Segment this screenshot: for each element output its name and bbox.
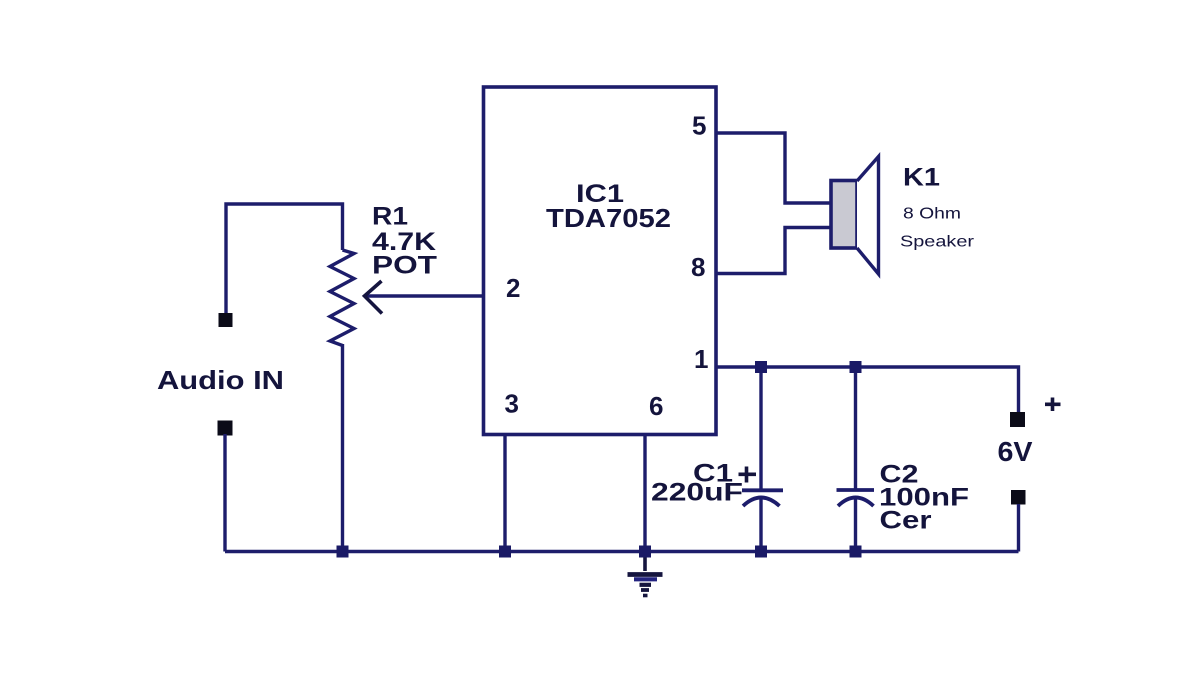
resistor R1 zigzag: [330, 250, 354, 346]
svg-text:3: 3: [505, 389, 519, 419]
svg-text:6: 6: [649, 391, 663, 421]
svg-text:1: 1: [694, 344, 708, 374]
wire audio lower terminal to ground rail: [223, 434, 226, 552]
svg-text:TDA7052: TDA7052: [546, 203, 671, 233]
wire pin8 to speaker: [716, 228, 830, 274]
battery positive terminal: [1010, 412, 1025, 427]
capacitor C2 bottom wire: [854, 500, 857, 552]
capacitor C2 top wire: [854, 367, 857, 489]
IC IC1 TDA7052 box: [484, 87, 717, 435]
svg-text:Speaker: Speaker: [900, 234, 975, 251]
battery negative terminal: [1011, 490, 1026, 505]
capacitor C1 top plate: [742, 488, 783, 492]
ground symbol: [628, 552, 663, 596]
wire pin3 down: [503, 434, 506, 552]
wire battery negative to ground rail: [1017, 504, 1020, 552]
junction dot pin3/ground rail: [499, 546, 511, 558]
svg-text:Cer: Cer: [880, 507, 932, 535]
wire pin1 to battery positive: [716, 367, 1019, 412]
battery plus sign: [1045, 398, 1061, 412]
capacitor C1 top wire: [759, 367, 762, 489]
capacitor C1 bottom wire: [759, 500, 762, 552]
speaker K1 cone: [857, 157, 879, 275]
wire audio upper terminal to pot top: [226, 204, 343, 313]
svg-text:Audio IN: Audio IN: [157, 365, 284, 395]
junction dot C2/ground rail: [850, 546, 862, 558]
svg-text:2: 2: [506, 273, 520, 303]
capacitor C2 top plate: [837, 488, 875, 492]
svg-text:6V: 6V: [998, 436, 1033, 467]
svg-text:5: 5: [692, 111, 706, 141]
svg-text:8: 8: [691, 252, 705, 282]
wiper arrow head: [365, 281, 383, 314]
junction dot pin6/ground rail: [639, 546, 651, 558]
svg-text:POT: POT: [372, 252, 437, 280]
wire pin6 down: [643, 434, 646, 552]
wire pin2 to potentiometer wiper: [367, 294, 484, 297]
capacitor C1 curved plate: [743, 498, 780, 507]
svg-text:220uF: 220uF: [651, 479, 743, 507]
C1 plus sign: [739, 467, 757, 483]
svg-text:R1: R1: [372, 203, 408, 231]
svg-text:8 Ohm: 8 Ohm: [903, 206, 961, 223]
junction dot C1/supply wire: [755, 361, 767, 373]
ground rail bottom wire: [225, 550, 1019, 553]
junction dot C2/supply wire: [850, 361, 862, 373]
svg-text:K1: K1: [903, 164, 940, 192]
junction dot C1/ground rail: [755, 546, 767, 558]
speaker K1 body: [831, 181, 857, 249]
audio input lower terminal: [218, 421, 233, 436]
audio input upper terminal: [219, 313, 233, 327]
wire pin5 to speaker: [716, 133, 830, 203]
capacitor C2 curved plate: [838, 498, 874, 507]
wire pot bottom to ground rail: [341, 344, 344, 552]
junction dot pot/ground rail: [337, 546, 349, 558]
